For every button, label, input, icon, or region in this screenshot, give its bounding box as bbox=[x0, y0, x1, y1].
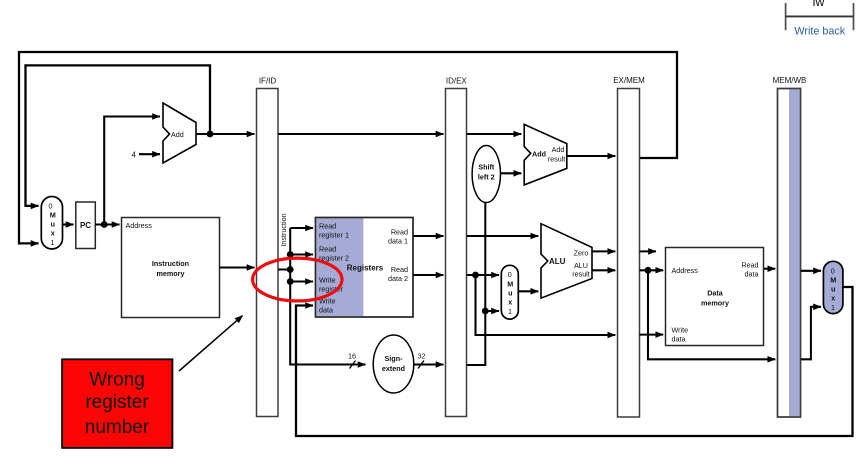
register PC bbox=[76, 202, 96, 249]
svg-text:Address: Address bbox=[126, 221, 153, 230]
svg-text:1: 1 bbox=[51, 238, 55, 247]
MEM/WB shaded half bbox=[789, 89, 800, 416]
svg-text:Add: Add bbox=[552, 145, 565, 154]
svg-text:Add: Add bbox=[171, 130, 184, 139]
svg-text:0: 0 bbox=[831, 267, 835, 276]
sign extend unit bbox=[373, 335, 414, 393]
wire: read data 2 to ALU mux and EX/MEM write data bbox=[467, 274, 499, 276]
svg-text:Sign-: Sign- bbox=[385, 354, 404, 363]
svg-text:4: 4 bbox=[132, 151, 137, 160]
svg-text:u: u bbox=[508, 289, 512, 298]
svg-text:0: 0 bbox=[508, 270, 512, 279]
pipeline register EX/MEM bbox=[618, 89, 640, 418]
wire: PC to instruction memory address bbox=[95, 223, 119, 225]
node: Add output junction bbox=[207, 131, 214, 138]
svg-text:register: register bbox=[85, 392, 149, 413]
svg-text:Read: Read bbox=[319, 221, 336, 230]
svg-text:Read: Read bbox=[319, 244, 336, 253]
registers shaded port area bbox=[316, 219, 363, 317]
svg-text:data 1: data 1 bbox=[388, 236, 408, 245]
svg-text:number: number bbox=[85, 417, 150, 438]
wire: Add output to IF/ID bbox=[196, 133, 255, 135]
pipeline register IF/ID bbox=[257, 89, 279, 417]
memory: Data memory bbox=[666, 248, 764, 346]
wire: Zero to EX/MEM bbox=[592, 250, 615, 252]
adder Add (PC+4) bbox=[163, 103, 196, 163]
svg-text:result: result bbox=[572, 270, 590, 279]
svg-text:Wrong: Wrong bbox=[89, 370, 145, 391]
svg-text:32: 32 bbox=[418, 352, 426, 361]
svg-text:0: 0 bbox=[49, 202, 53, 211]
node: PC output junction bbox=[101, 221, 108, 228]
wire: 4 to Add bottom input bbox=[139, 153, 160, 155]
svg-text:Registers: Registers bbox=[347, 263, 384, 272]
wire: sign extend to ID/EX bbox=[414, 363, 444, 365]
wire: instruction bus from IF/ID bbox=[278, 228, 365, 365]
wire: read data 2 to ID/EX bbox=[413, 274, 444, 276]
svg-text:memory: memory bbox=[157, 269, 185, 278]
svg-text:Write: Write bbox=[672, 326, 689, 335]
svg-text:Address: Address bbox=[672, 266, 699, 275]
registers block bbox=[316, 218, 414, 318]
svg-text:u: u bbox=[51, 220, 55, 229]
svg-text:Data: Data bbox=[707, 289, 724, 298]
wire: PC+4 from IF/ID to ID/EX bbox=[278, 133, 443, 135]
svg-text:M: M bbox=[507, 280, 513, 289]
wire: MEM/WB ALU result to mux input 1 bbox=[801, 307, 821, 360]
svg-text:x: x bbox=[51, 229, 55, 238]
svg-text:x: x bbox=[508, 298, 512, 307]
svg-text:data: data bbox=[319, 305, 333, 314]
adder Add (branch target) bbox=[524, 124, 567, 184]
svg-text:register 1: register 1 bbox=[319, 230, 349, 239]
mux M1 (PC source) bbox=[41, 197, 62, 250]
svg-text:Zero: Zero bbox=[574, 249, 589, 258]
wire: write data to data memory bbox=[640, 334, 664, 336]
shift left 2 unit bbox=[472, 146, 500, 203]
svg-text:16: 16 bbox=[348, 352, 356, 361]
wire: write-back data from mux to registers write data (bottom) bbox=[296, 287, 853, 436]
node: read data 2 junction bbox=[472, 272, 479, 279]
svg-text:EX/MEM: EX/MEM bbox=[613, 76, 645, 85]
svg-text:Instruction: Instruction bbox=[279, 213, 288, 246]
svg-text:MEM/WB: MEM/WB bbox=[773, 76, 807, 85]
wire: to Read register 1 bbox=[290, 227, 313, 229]
annotation: arrow from callout to IF/ID bbox=[179, 316, 243, 371]
wire: MEM/WB read data to mux input 0 bbox=[801, 270, 821, 272]
memory: Instruction memory bbox=[122, 218, 220, 318]
svg-text:u: u bbox=[831, 285, 835, 294]
annotation: red ellipse highlighting wrong register number bbox=[253, 258, 342, 301]
svg-text:left 2: left 2 bbox=[478, 173, 495, 182]
wire: PC+4 feedback Add output to PC mux input 0 bbox=[26, 65, 211, 206]
svg-text:data: data bbox=[672, 335, 686, 344]
svg-text:lw: lw bbox=[813, 0, 826, 9]
svg-text:x: x bbox=[831, 294, 835, 303]
wire: shift left 2 to branch adder bbox=[501, 172, 522, 174]
wire: PC+4 from ID/EX to branch adder bbox=[467, 133, 522, 135]
svg-text:Write: Write bbox=[319, 275, 336, 284]
svg-text:Shift: Shift bbox=[478, 163, 495, 172]
wire: zero dangling arrow bbox=[640, 250, 656, 252]
wire: branch target to EX/MEM bbox=[567, 155, 616, 157]
wire: to Write register bbox=[290, 280, 313, 282]
svg-text:memory: memory bbox=[701, 299, 729, 308]
wire: ALU result bypass to MEM/WB bbox=[648, 270, 775, 359]
top annotation: left tick bbox=[785, 3, 787, 30]
wire: read data to MEM/WB bbox=[764, 268, 776, 270]
wire: ALU mux to ALU bbox=[518, 290, 538, 292]
svg-text:extend: extend bbox=[382, 364, 405, 373]
svg-text:Read: Read bbox=[391, 227, 408, 236]
svg-text:data 2: data 2 bbox=[388, 274, 408, 283]
wire: immediate from ID/EX to shift left 2 and ALU mux bbox=[467, 203, 486, 365]
wire: ALU result to EX/MEM bbox=[592, 269, 615, 271]
annotation: red callout box bbox=[62, 359, 172, 448]
svg-text:ALU: ALU bbox=[549, 257, 566, 266]
wire: read data 1 to ALU bbox=[467, 235, 539, 237]
node: ALU result junction bbox=[645, 267, 652, 274]
svg-text:1: 1 bbox=[508, 307, 512, 316]
wire: mux to PC bbox=[63, 223, 74, 225]
svg-text:IF/ID: IF/ID bbox=[259, 77, 277, 86]
mux M3 (write-back source) bbox=[823, 261, 843, 313]
pipeline register MEM/WB bbox=[778, 89, 801, 418]
svg-text:Write back: Write back bbox=[794, 26, 845, 38]
node: instruction bus junctions bbox=[287, 251, 294, 258]
svg-text:ID/EX: ID/EX bbox=[446, 77, 468, 86]
wire: ALU result to data memory address bbox=[640, 269, 664, 271]
wire: instruction memory to IF/ID bbox=[220, 266, 255, 268]
svg-text:Read: Read bbox=[391, 265, 408, 274]
svg-text:M: M bbox=[830, 276, 836, 285]
ALU bbox=[541, 224, 592, 298]
svg-text:data: data bbox=[745, 270, 759, 279]
svg-text:1: 1 bbox=[831, 303, 835, 312]
svg-text:result: result bbox=[548, 155, 566, 164]
svg-text:Add: Add bbox=[532, 149, 546, 158]
svg-text:Instruction: Instruction bbox=[152, 259, 189, 268]
wire: to Read register 2 bbox=[290, 253, 313, 255]
top annotation: right tick bbox=[853, 3, 855, 30]
svg-text:PC: PC bbox=[80, 221, 91, 230]
svg-text:Read: Read bbox=[741, 261, 758, 270]
mux M2 (ALU source) bbox=[501, 265, 518, 319]
pipeline register ID/EX bbox=[446, 89, 467, 417]
top annotation: stage interval line bbox=[786, 15, 854, 17]
node: immediate junction bbox=[482, 308, 489, 315]
svg-text:M: M bbox=[50, 211, 56, 220]
wire: branch target feedback EX/MEM to PC mux input 1 bbox=[19, 52, 677, 243]
wire: PC to Add top input bbox=[104, 117, 160, 225]
wire: read data 1 to ID/EX bbox=[413, 235, 444, 237]
